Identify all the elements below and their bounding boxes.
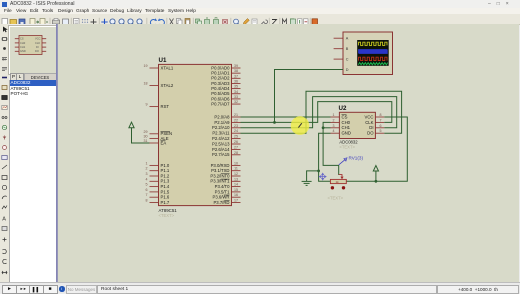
pick device xyxy=(234,19,239,24)
wire ground branch xyxy=(307,171,319,181)
2d box xyxy=(2,176,7,180)
svg-text:VCC: VCC xyxy=(365,114,374,119)
instrument xyxy=(2,96,7,100)
svg-text:P2.1/A9: P2.1/A9 xyxy=(214,120,230,125)
svg-text:P2.0/A8: P2.0/A8 xyxy=(214,114,230,119)
svg-text:DI: DI xyxy=(36,45,39,49)
move cursor cross xyxy=(319,173,326,180)
svg-text:28: 28 xyxy=(234,151,238,155)
save floppy xyxy=(19,19,25,25)
left devices panel xyxy=(9,24,56,282)
svg-text:26: 26 xyxy=(234,140,238,144)
svg-text:4: 4 xyxy=(146,177,148,181)
U1 pin numbers xyxy=(144,64,239,203)
svg-text:CH0: CH0 xyxy=(342,120,351,125)
U2 pin names xyxy=(342,114,351,135)
svg-text:P3.5/T1: P3.5/T1 xyxy=(215,189,231,194)
svg-text:DO: DO xyxy=(35,49,39,53)
svg-text:P1.1: P1.1 xyxy=(161,168,170,173)
wire label mode xyxy=(2,58,7,60)
junction node GND/ground/RV1 xyxy=(317,170,320,173)
origin xyxy=(91,19,97,25)
svg-text:CH1: CH1 xyxy=(20,45,26,49)
tape recorder xyxy=(2,117,4,119)
svg-text:6: 6 xyxy=(380,124,382,128)
import xyxy=(30,19,35,26)
oscilloscope pin stubs A-D xyxy=(334,38,343,69)
svg-text:P0.7/AD7: P0.7/AD7 xyxy=(211,101,230,106)
svg-text:<TEXT>: <TEXT> xyxy=(339,144,355,149)
svg-text:1: 1 xyxy=(333,113,335,117)
junction node VCC/RV1/power xyxy=(375,180,378,183)
svg-text:7: 7 xyxy=(146,193,148,197)
open folder xyxy=(10,20,17,25)
RV1 pin marker dots xyxy=(331,186,334,189)
svg-text:30: 30 xyxy=(144,134,148,138)
title bar xyxy=(0,0,520,8)
svg-text:P1.0: P1.0 xyxy=(161,163,170,168)
wire label RV1(3) xyxy=(339,156,364,165)
svg-text:P2.7/A15: P2.7/A15 xyxy=(212,152,230,157)
wrench xyxy=(261,20,268,25)
channel A yellow trace xyxy=(359,42,388,45)
U1 right pin stubs xyxy=(232,68,241,203)
mcu U1 body xyxy=(159,57,232,218)
svg-text:27: 27 xyxy=(234,145,238,149)
svg-text:CS: CS xyxy=(20,37,24,41)
svg-text:32: 32 xyxy=(234,100,238,104)
wire U2 GND down xyxy=(319,133,331,181)
new page xyxy=(2,19,8,26)
svg-text:XTAL2: XTAL2 xyxy=(161,83,174,88)
svg-text:C: C xyxy=(346,58,349,62)
design explorer xyxy=(291,19,296,25)
svg-text:14: 14 xyxy=(234,183,238,187)
svg-text:19: 19 xyxy=(144,64,148,68)
potentiometer RV1 xyxy=(330,175,346,184)
virtual instruments xyxy=(2,156,7,160)
svg-text:39: 39 xyxy=(234,64,238,68)
svg-text:P2.2/A10: P2.2/A10 xyxy=(212,125,230,130)
menu bar xyxy=(0,8,520,14)
svg-text:7: 7 xyxy=(380,118,382,122)
text mode xyxy=(2,68,7,71)
ground symbol xyxy=(302,181,312,185)
zoom out xyxy=(119,19,124,24)
svg-text:P1.5: P1.5 xyxy=(161,189,170,194)
svg-text:18: 18 xyxy=(144,82,148,86)
svg-text:4: 4 xyxy=(333,129,335,133)
svg-text:8: 8 xyxy=(146,199,148,203)
svg-text:GND: GND xyxy=(342,131,351,136)
svg-text:CLK: CLK xyxy=(365,120,373,125)
junction dot mode xyxy=(3,47,6,50)
block delete xyxy=(223,20,228,25)
svg-text:CH0: CH0 xyxy=(20,41,26,45)
svg-text:P2.4/A12: P2.4/A12 xyxy=(212,136,230,141)
svg-text:P1.2: P1.2 xyxy=(161,173,170,178)
block move xyxy=(205,20,210,25)
copy xyxy=(177,19,181,24)
component mode xyxy=(2,38,8,41)
zoom area xyxy=(137,19,142,24)
svg-text:P1.6: P1.6 xyxy=(161,195,170,200)
grid toggle xyxy=(82,19,88,25)
2d symbol xyxy=(2,227,7,231)
svg-text:P1.3: P1.3 xyxy=(161,179,170,184)
oscilloscope screen xyxy=(357,40,389,66)
svg-text:21: 21 xyxy=(234,113,238,117)
generator xyxy=(2,125,6,129)
search tag M xyxy=(283,19,287,25)
rotate cw xyxy=(3,249,7,253)
status bar xyxy=(0,282,520,293)
svg-text:DO: DO xyxy=(367,131,374,136)
printer xyxy=(53,20,60,24)
svg-text:B: B xyxy=(346,47,349,51)
svg-text:3: 3 xyxy=(333,124,335,128)
remove sheet xyxy=(304,19,309,25)
svg-text:P3.4/T0: P3.4/T0 xyxy=(215,184,231,189)
wire U2 CH0 to CH1 tie xyxy=(323,122,330,127)
svg-text:XTAL1: XTAL1 xyxy=(161,65,174,70)
zoom all xyxy=(128,19,133,24)
undo xyxy=(150,20,156,26)
svg-text:35: 35 xyxy=(234,85,238,89)
wire P2.0 to U2 CS xyxy=(241,116,331,118)
svg-text:31: 31 xyxy=(144,139,148,143)
toolbar xyxy=(0,14,520,25)
oscilloscope body xyxy=(343,32,393,75)
junction node CLK/oscD xyxy=(273,121,276,124)
svg-text:5: 5 xyxy=(146,183,148,187)
wire autorouter Z xyxy=(272,20,277,25)
wire P2.1 wrap to U2 CLK xyxy=(241,102,392,123)
power symbol at RV1 xyxy=(373,166,378,172)
svg-text:24: 24 xyxy=(234,129,238,133)
mirror x xyxy=(2,271,7,274)
wire U1 EA to power xyxy=(132,128,150,143)
2d circle xyxy=(2,185,6,189)
U2 pin stubs xyxy=(331,117,385,133)
svg-text:13: 13 xyxy=(234,177,238,181)
svg-text:P2.5/A13: P2.5/A13 xyxy=(212,141,230,146)
redo xyxy=(159,20,165,26)
svg-text:2: 2 xyxy=(333,118,335,122)
svg-text:6: 6 xyxy=(146,188,148,192)
device preview chip in overview panel xyxy=(15,36,46,55)
svg-text:P2.6/A14: P2.6/A14 xyxy=(212,147,230,152)
svg-text:P3.3/INT1: P3.3/INT1 xyxy=(210,179,230,184)
svg-text:3: 3 xyxy=(146,172,148,176)
2d marker xyxy=(3,238,7,242)
voltage probe xyxy=(3,136,6,140)
wire U2 CH1 stub link xyxy=(323,127,330,129)
svg-text:DI: DI xyxy=(369,125,373,130)
current probe xyxy=(3,146,7,150)
U1 right pin names xyxy=(210,65,230,205)
sheet xyxy=(74,19,80,26)
wire P2.3 wrap to U2 DO xyxy=(241,91,402,133)
svg-text:<TEXT>: <TEXT> xyxy=(328,196,344,201)
svg-text:34: 34 xyxy=(234,90,238,94)
exit icon xyxy=(312,19,318,25)
svg-text:P3.0/RXD: P3.0/RXD xyxy=(211,163,230,168)
junction node CH0/CH1/wiper xyxy=(322,126,325,129)
2d path xyxy=(2,206,7,210)
svg-text:25: 25 xyxy=(234,135,238,139)
2d arc xyxy=(2,196,7,199)
canvas background xyxy=(58,24,519,282)
svg-text:11: 11 xyxy=(234,167,238,171)
svg-text:CLK: CLK xyxy=(35,41,40,45)
svg-text:P1.7: P1.7 xyxy=(161,200,170,205)
svg-text:CH1: CH1 xyxy=(342,125,351,130)
block rotate xyxy=(214,20,219,25)
cut xyxy=(170,19,174,26)
svg-text:U1: U1 xyxy=(159,57,167,64)
svg-text:<TEXT>: <TEXT> xyxy=(159,213,175,218)
U1 left pin stubs xyxy=(150,68,159,203)
svg-text:16: 16 xyxy=(234,193,238,197)
new sheet xyxy=(298,19,303,25)
svg-text:37: 37 xyxy=(234,74,238,78)
wire CH1 node to RV1 wiper xyxy=(323,128,339,175)
wire U2 VCC around right xyxy=(384,117,407,181)
svg-text:29: 29 xyxy=(144,130,148,134)
svg-text:17: 17 xyxy=(234,199,238,203)
svg-text:10: 10 xyxy=(234,161,238,165)
channel C red trace xyxy=(359,57,388,60)
subcircuit xyxy=(2,86,7,90)
bus mode xyxy=(2,77,7,79)
svg-text:VCC: VCC xyxy=(35,37,41,41)
paste xyxy=(185,19,190,26)
svg-text:EA: EA xyxy=(161,140,167,145)
block copy xyxy=(196,19,200,23)
pan xyxy=(101,19,107,25)
svg-text:2: 2 xyxy=(146,167,148,171)
svg-text:8: 8 xyxy=(380,113,382,117)
wire oscilloscope D to CLK net xyxy=(275,70,344,123)
divider xyxy=(56,24,58,282)
svg-text:P3.1/TXD: P3.1/TXD xyxy=(211,168,229,173)
power symbol at U1 EA xyxy=(129,122,134,128)
svg-text:P1.4: P1.4 xyxy=(161,184,170,189)
selection arrow xyxy=(3,27,8,33)
2d line xyxy=(2,165,7,169)
svg-text:36: 36 xyxy=(234,79,238,83)
prop tool xyxy=(252,19,257,25)
U1 left pin names xyxy=(161,65,174,205)
highlight cursor circle xyxy=(291,116,310,135)
wire P2.2 wrap to U2 DI xyxy=(241,97,397,128)
zoom in xyxy=(110,19,115,24)
channel D green trace xyxy=(358,63,387,65)
graph mode xyxy=(2,106,7,110)
svg-text:GND: GND xyxy=(20,49,26,53)
export xyxy=(40,19,45,26)
adc U2 body xyxy=(339,105,376,149)
channel B blue trace xyxy=(359,50,388,54)
svg-text:33: 33 xyxy=(234,95,238,99)
svg-text:1: 1 xyxy=(146,161,148,165)
svg-text:D: D xyxy=(346,68,349,72)
U2 pin numbers xyxy=(333,113,382,133)
svg-text:A: A xyxy=(346,37,349,41)
wire RV1 power stem xyxy=(375,171,377,181)
svg-text:22: 22 xyxy=(234,118,238,122)
svg-text:38: 38 xyxy=(234,69,238,73)
print area xyxy=(63,19,69,25)
svg-text:RV1(3): RV1(3) xyxy=(349,156,364,161)
svg-text:P2.3/A11: P2.3/A11 xyxy=(212,131,230,136)
svg-text:12: 12 xyxy=(234,172,238,176)
left mode tool column xyxy=(0,24,10,282)
pencil xyxy=(243,19,249,26)
svg-text:1k: 1k xyxy=(336,180,340,184)
svg-text:RST: RST xyxy=(161,104,170,109)
svg-text:5: 5 xyxy=(380,129,382,133)
svg-text:P3.6/WR: P3.6/WR xyxy=(212,195,229,200)
svg-text:9: 9 xyxy=(146,103,148,107)
svg-text:P3.7/RD: P3.7/RD xyxy=(213,200,229,205)
rotate ccw xyxy=(3,259,7,263)
svg-text:U2: U2 xyxy=(339,105,347,112)
svg-text:CS: CS xyxy=(342,114,348,119)
property assign xyxy=(290,19,294,23)
svg-text:23: 23 xyxy=(234,124,238,128)
svg-text:15: 15 xyxy=(234,188,238,192)
wire RV1 right to power xyxy=(346,180,395,182)
svg-text:P3.2/INT0: P3.2/INT0 xyxy=(210,173,230,178)
